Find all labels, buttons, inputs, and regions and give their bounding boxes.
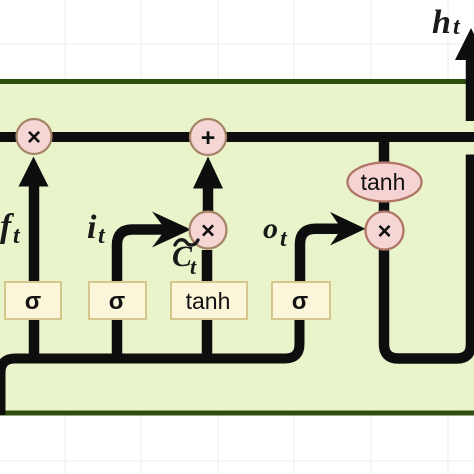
arrowhead into candidate x-circle xyxy=(152,212,191,248)
arrowhead into x-circle (forget) xyxy=(19,157,49,187)
svg-text:o: o xyxy=(263,212,278,245)
svg-text:tanh: tanh xyxy=(186,288,231,314)
wire: candidate x-circle up to + circle xyxy=(203,187,214,212)
svg-text:+: + xyxy=(201,124,216,152)
wire: h-output U path (down, right, up) xyxy=(384,155,471,359)
wire: input bus from bottom-left to o-gate xyxy=(1,282,300,415)
svg-text:×: × xyxy=(27,124,41,151)
gate box sigma 1 (forget) xyxy=(5,282,61,319)
wire: candidate (tanh gate) vertical line xyxy=(202,250,213,359)
svg-text:×: × xyxy=(377,218,391,245)
wire: i-gate line with bend xyxy=(117,230,167,359)
gate box tanh (candidate) xyxy=(171,282,247,319)
wire: f-gate vertical line xyxy=(29,186,40,359)
svg-text:i: i xyxy=(87,209,97,246)
label i_t xyxy=(87,209,106,249)
wire: branch from C line down to tanh ellipse xyxy=(379,137,390,165)
op circle: output multiply xyxy=(366,212,404,250)
op circle: candidate multiply xyxy=(190,212,227,249)
svg-text:h: h xyxy=(432,4,451,41)
svg-text:σ: σ xyxy=(292,288,308,315)
gate box sigma 3 (output) xyxy=(272,282,330,319)
op circle: add xyxy=(190,119,226,155)
arrowhead into output x-circle xyxy=(330,212,366,246)
LSTM cell body (green rounded box) xyxy=(0,82,474,414)
wire: cell state line C (horizontal) xyxy=(0,132,474,142)
svg-text:t: t xyxy=(190,254,197,279)
arrowhead into + circle xyxy=(193,157,223,189)
svg-text:×: × xyxy=(201,218,215,245)
gate box sigma 2 (input) xyxy=(89,282,146,319)
op ellipse: tanh xyxy=(348,163,422,202)
label o_t xyxy=(263,212,288,252)
label h_t xyxy=(432,4,461,41)
label f_t xyxy=(0,208,21,249)
arrowhead h_t (pointing up, partially cropped) xyxy=(455,28,474,60)
wire: tanh ellipse to output x-circle xyxy=(379,200,390,214)
label C~_t xyxy=(172,240,198,279)
svg-text:tanh: tanh xyxy=(361,169,406,195)
wire: h-output upper segment crossing border xyxy=(466,59,474,121)
op circle: forget multiply xyxy=(17,119,52,154)
svg-text:σ: σ xyxy=(25,288,41,315)
svg-text:σ: σ xyxy=(109,288,125,315)
wire: o-gate line with bend xyxy=(300,229,342,282)
